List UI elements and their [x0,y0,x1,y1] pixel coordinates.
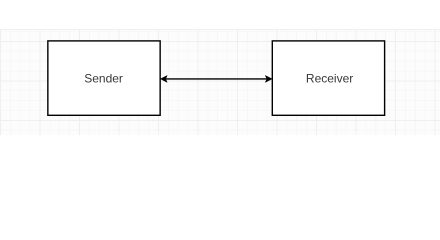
arrowhead right [265,76,272,83]
svg-text:Sender: Sender [84,72,123,86]
page top edge [0,29,440,30]
box Receiver [272,41,384,115]
wire: double arrow shaft [165,78,268,80]
grid background [0,29,440,135]
arrowhead left [161,76,168,83]
box Sender [48,41,160,115]
svg-text:Receiver: Receiver [306,72,353,86]
